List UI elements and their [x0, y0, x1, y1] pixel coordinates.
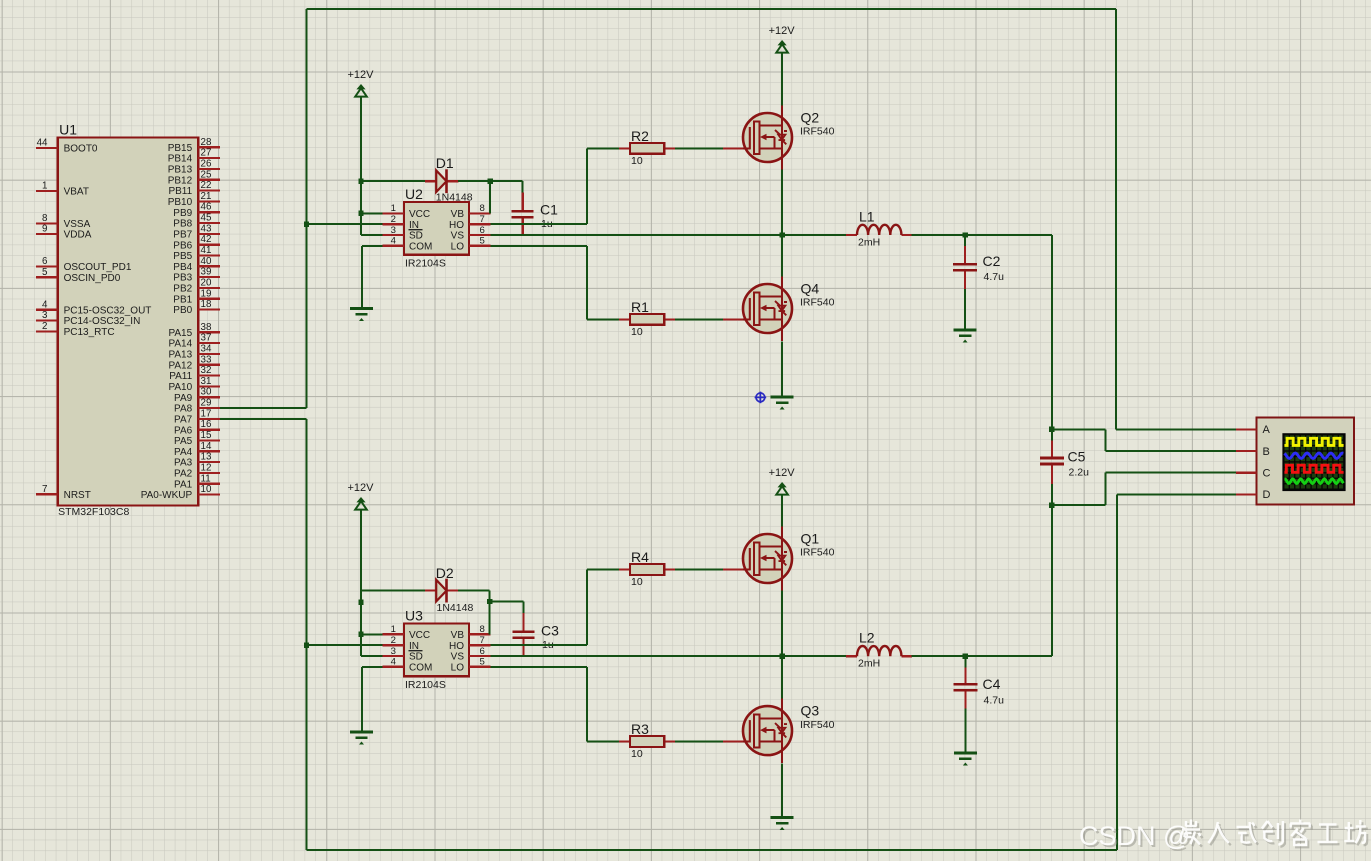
svg-text:4.7u: 4.7u [984, 695, 1005, 707]
capacitor C4 plates [953, 683, 977, 686]
wire B riser [1105, 429, 1107, 451]
U3 pin 1 VCC [382, 624, 430, 641]
junction C5 top node [1049, 427, 1054, 432]
capacitor C5 bottom lead [1051, 465, 1053, 484]
svg-text:IR2104S: IR2104S [405, 258, 446, 270]
svg-text:2: 2 [391, 635, 396, 646]
wire top border to scope A [307, 8, 1117, 10]
wire D1 anode wire [361, 180, 425, 182]
svg-text:6: 6 [42, 256, 48, 267]
power +12V symbol Q2 [769, 25, 796, 53]
wire R4 to Q1 gate [675, 569, 723, 571]
svg-text:VB: VB [451, 630, 465, 641]
svg-text:8: 8 [42, 213, 48, 224]
wire U2 IN branch [307, 223, 383, 225]
svg-text:2.2u: 2.2u [1069, 467, 1090, 479]
svg-text:VSSA: VSSA [64, 219, 91, 230]
svg-text:10: 10 [201, 484, 212, 495]
resistor R2 [630, 143, 664, 154]
svg-text:+12V: +12V [769, 25, 796, 37]
wire +12V U3 down [360, 510, 362, 657]
U1 pin 4 PC15-OSC32_OUT [36, 299, 152, 316]
svg-text:15: 15 [201, 430, 212, 441]
wire U3 VS phase run [491, 655, 782, 657]
svg-text:25: 25 [201, 169, 212, 180]
wire scope B row [1106, 450, 1237, 452]
capacitor C5 top lead [1051, 429, 1053, 441]
inductor L2 [857, 646, 901, 656]
U1 pin 40 PB4 [173, 256, 220, 273]
svg-text:5: 5 [42, 267, 48, 278]
svg-text:42: 42 [201, 234, 212, 245]
svg-text:PB2: PB2 [173, 284, 192, 295]
svg-text:30: 30 [201, 387, 212, 398]
svg-text:L2: L2 [859, 630, 875, 646]
U1 pin 1 VBAT [36, 180, 89, 197]
trace channel C red square wave [1284, 465, 1343, 472]
U1 pin 3 PC14-OSC32_IN [36, 310, 140, 327]
power +12V symbol Q1 [769, 467, 796, 495]
svg-text:IRF540: IRF540 [800, 297, 835, 309]
svg-text:PB15: PB15 [168, 143, 193, 154]
capacitor C3 bottom lead [522, 639, 524, 656]
ground (Q3 source) [771, 818, 794, 831]
svg-text:31: 31 [201, 376, 212, 387]
resistor R1 leads [619, 318, 630, 320]
svg-text:26: 26 [201, 158, 212, 169]
svg-text:+12V: +12V [769, 467, 796, 479]
power +12V symbol U2 [348, 69, 375, 97]
junction D1 anode node [358, 179, 363, 184]
wire C4 bottom to ground [964, 709, 966, 753]
oscilloscope pin C [1236, 468, 1270, 480]
svg-text:IRF540: IRF540 [800, 126, 835, 138]
capacitor C3 top lead [523, 602, 525, 614]
wire HO riser [586, 148, 588, 224]
svg-text:R4: R4 [631, 549, 649, 565]
svg-text:33: 33 [201, 354, 212, 365]
svg-text:7: 7 [480, 635, 485, 646]
wire +12V to Q2 drain [781, 53, 783, 106]
resistor R3 [630, 736, 664, 747]
U1 pin 19 PB1 [173, 288, 220, 305]
wire phase to L1 [782, 234, 847, 236]
U1 pin 33 PA12 [168, 354, 219, 371]
svg-text:1N4148: 1N4148 [436, 192, 473, 204]
svg-text:PB0: PB0 [173, 305, 192, 316]
junction phase node upper [779, 232, 784, 237]
svg-text:PB13: PB13 [168, 165, 193, 176]
wire U3 COM down [361, 667, 363, 732]
wire HO riser lower [586, 570, 588, 646]
wire Q3 source down [781, 764, 783, 817]
svg-text:Q1: Q1 [801, 531, 820, 547]
capacitor C4 bottom lead [964, 692, 966, 709]
svg-text:COM: COM [409, 241, 432, 252]
svg-text:VB: VB [451, 209, 465, 220]
diode D1 [436, 170, 446, 192]
svg-text:11: 11 [201, 473, 211, 484]
svg-text:B: B [1263, 446, 1270, 458]
wire +12V U2 down [360, 97, 362, 236]
capacitor C2 plates [953, 263, 977, 266]
wire D2 anode wire [361, 590, 425, 592]
power +12V symbol U3 [348, 482, 375, 510]
resistor R1 [630, 314, 664, 325]
wire C riser [1105, 473, 1107, 506]
gate driver U2 body [404, 202, 469, 255]
svg-text:PB6: PB6 [173, 240, 192, 251]
resistor R4 leads [619, 568, 630, 570]
svg-text:PC15-OSC32_OUT: PC15-OSC32_OUT [64, 305, 152, 316]
wire C5 column down [1051, 505, 1053, 656]
wire right vertical to scope D [1116, 494, 1118, 850]
svg-text:4: 4 [391, 236, 397, 247]
U1 pin 14 PA4 [174, 441, 220, 458]
svg-text:Q2: Q2 [801, 110, 820, 126]
svg-text:LO: LO [451, 662, 465, 673]
wire U3 COM [362, 666, 382, 668]
capacitor C1 bottom lead [522, 219, 524, 235]
wire phase to L2 [782, 655, 847, 657]
svg-text:PA10: PA10 [168, 382, 192, 393]
wire LO to R3 [587, 741, 619, 743]
U1 pin 17 PA7 [174, 408, 220, 425]
U2 pin 7 HO [449, 214, 491, 231]
svg-text:PA2: PA2 [174, 469, 193, 480]
wire C5 bottom branch [1052, 504, 1106, 506]
svg-text:9: 9 [42, 224, 47, 235]
U1 pin 22 PB11 [168, 180, 219, 197]
wire D1 cathode to VB [458, 180, 490, 182]
inductor L1 leads [846, 234, 857, 236]
svg-text:A: A [1263, 424, 1271, 436]
junction U3 VCC node [358, 632, 363, 637]
svg-text:Q3: Q3 [801, 703, 820, 719]
svg-text:R1: R1 [631, 299, 649, 315]
U1 pin 37 PA14 [168, 333, 219, 350]
trace channel A yellow square wave [1284, 438, 1343, 445]
svg-text:U2: U2 [405, 186, 423, 202]
svg-text:HO: HO [449, 641, 464, 652]
wire scope A row [1116, 428, 1236, 430]
ground (C2) [954, 330, 977, 343]
U1 pin 16 PA6 [174, 419, 220, 436]
svg-text:5: 5 [480, 657, 485, 668]
svg-text:L1: L1 [859, 209, 875, 225]
svg-text:IRF540: IRF540 [800, 547, 835, 559]
svg-text:PA1: PA1 [174, 479, 193, 490]
wire LO dropper [586, 246, 588, 320]
svg-text:2mH: 2mH [858, 658, 880, 670]
Q4 gate lead [723, 318, 745, 320]
svg-text:SD: SD [409, 231, 423, 242]
svg-text:45: 45 [201, 213, 212, 224]
svg-text:C1: C1 [540, 202, 558, 218]
wire U3 VCC [361, 633, 382, 635]
svg-text:R3: R3 [631, 721, 649, 737]
svg-text:PB14: PB14 [168, 154, 193, 165]
capacitor C1 top lead [522, 181, 524, 193]
svg-text:5: 5 [480, 236, 485, 247]
svg-text:+12V: +12V [348, 482, 375, 494]
wire scope C row [1106, 472, 1237, 474]
svg-text:1: 1 [42, 180, 47, 191]
inductor L1 [857, 225, 901, 235]
svg-text:10: 10 [631, 748, 643, 760]
svg-text:D: D [1263, 489, 1271, 501]
oscilloscope pin D [1236, 489, 1270, 501]
wire Q2 source to phase [781, 170, 783, 236]
svg-text:PC13_RTC: PC13_RTC [64, 327, 115, 338]
wire HO to R4 [587, 569, 619, 571]
svg-text:STM32F103C8: STM32F103C8 [58, 506, 129, 518]
svg-text:27: 27 [201, 148, 212, 159]
U2 pin 5 LO [451, 236, 491, 253]
oscilloscope screen [1282, 433, 1345, 491]
U1 pin 45 PB8 [173, 213, 220, 230]
svg-text:PB5: PB5 [173, 251, 192, 262]
diode D2 leads [425, 589, 436, 591]
svg-text:LO: LO [451, 241, 465, 252]
U1 pin 11 PA1 [174, 473, 220, 490]
wire R3 to Q3 gate [675, 741, 723, 743]
svg-text:R2: R2 [631, 128, 649, 144]
svg-text:29: 29 [201, 398, 212, 409]
U1 pin 38 PA15 [168, 322, 219, 339]
U2 pin 6 VS [451, 225, 491, 242]
svg-text:41: 41 [201, 245, 212, 256]
wire C5 bottom lead wire [1051, 484, 1053, 505]
svg-text:8: 8 [480, 624, 485, 635]
wire U3 SD tie [361, 655, 382, 657]
svg-text:37: 37 [201, 333, 212, 344]
wire VB drop lower [489, 591, 491, 635]
wire L1 node down [1051, 235, 1053, 429]
U1 pin 46 PB9 [173, 202, 220, 219]
svg-text:PB4: PB4 [173, 262, 192, 273]
svg-text:46: 46 [201, 202, 212, 213]
svg-text:28: 28 [201, 137, 212, 148]
svg-text:PB1: PB1 [173, 294, 192, 305]
svg-text:PA0-WKUP: PA0-WKUP [141, 490, 193, 501]
wire U3 HO run [491, 644, 587, 646]
svg-text:4: 4 [391, 657, 397, 668]
svg-text:IRF540: IRF540 [800, 719, 835, 731]
svg-text:OSCIN_PD0: OSCIN_PD0 [64, 273, 121, 284]
svg-text:PB8: PB8 [173, 219, 192, 230]
svg-text:32: 32 [201, 365, 212, 376]
svg-text:17: 17 [201, 408, 212, 419]
U1 pin 41 PB5 [173, 245, 220, 262]
U1 pin 26 PB13 [168, 158, 220, 175]
junction U2 VCC node [358, 211, 363, 216]
junction C2 node [962, 232, 967, 237]
junction VB node [488, 179, 493, 184]
inductor L2 leads [846, 655, 857, 657]
svg-text:D2: D2 [436, 565, 454, 581]
U3 pin 8 VB [451, 624, 491, 641]
trace channel B blue sine wave [1284, 453, 1343, 458]
svg-text:10: 10 [631, 155, 643, 167]
capacitor C2 top lead [964, 235, 966, 247]
svg-text:13: 13 [201, 452, 212, 463]
U2 pin 3 SD [382, 225, 423, 242]
svg-text:4.7u: 4.7u [984, 271, 1005, 283]
svg-text:PA5: PA5 [174, 436, 193, 447]
svg-text:Q4: Q4 [801, 281, 820, 297]
svg-text:1: 1 [391, 203, 396, 214]
svg-text:U3: U3 [405, 607, 423, 623]
svg-text:C2: C2 [983, 253, 1001, 269]
U1 pin 18 PB0 [173, 299, 220, 316]
svg-text:PB7: PB7 [173, 229, 192, 240]
svg-text:PA8: PA8 [174, 404, 193, 415]
capacitor C1 plates [512, 210, 534, 213]
U1 pin 12 PA2 [174, 462, 220, 479]
svg-text:3: 3 [391, 646, 396, 657]
wire U3 LO run [491, 666, 587, 668]
U2 pin 8 VB [451, 203, 491, 220]
svg-text:IR2104S: IR2104S [405, 679, 446, 691]
wire VB drop [489, 181, 491, 213]
svg-text:PA9: PA9 [174, 393, 193, 404]
wire PA8 bus up [306, 9, 308, 408]
U3 pin 4 COM [382, 657, 432, 674]
U1 pin 31 PA10 [168, 376, 219, 393]
U1 pin 20 PB2 [173, 277, 220, 294]
capacitor C4 top lead [964, 656, 966, 668]
U3 pin 6 VS [451, 646, 491, 663]
wire LO to R1 [587, 318, 619, 320]
svg-text:34: 34 [201, 343, 212, 354]
wire U3 IN branch [307, 644, 383, 646]
svg-text:PA3: PA3 [174, 458, 193, 469]
svg-text:3: 3 [391, 225, 396, 236]
svg-text:43: 43 [201, 223, 212, 234]
svg-text:PC14-OSC32_IN: PC14-OSC32_IN [64, 316, 141, 327]
transistor Q4 [743, 277, 792, 342]
U1 pin 43 PB7 [173, 223, 220, 240]
resistor R3 leads [619, 740, 630, 742]
U1 pin 32 PA11 [169, 365, 220, 382]
wire U2 COM down [361, 246, 363, 309]
U1 pin 39 PB3 [173, 267, 220, 284]
U2 pin 4 COM [382, 236, 432, 253]
svg-text:U1: U1 [59, 122, 77, 138]
wire L2 out [912, 655, 1052, 657]
svg-text:HO: HO [449, 220, 464, 231]
capacitor C5 plates [1040, 457, 1064, 460]
U3 pin 3 SD [382, 646, 423, 663]
U1 pin 29 PA8 [174, 398, 220, 415]
ground (C4) [954, 753, 977, 766]
svg-text:38: 38 [201, 322, 212, 333]
svg-text:PA7: PA7 [174, 414, 193, 425]
oscilloscope pin A [1236, 424, 1270, 436]
wire C5 top branch [1052, 428, 1106, 430]
svg-text:VCC: VCC [409, 209, 430, 220]
oscilloscope pin B [1236, 446, 1270, 458]
svg-text:VDDA: VDDA [64, 230, 92, 241]
MCU U1 body [58, 138, 199, 506]
U3 pin 2 IN [382, 635, 419, 652]
svg-text:2: 2 [391, 214, 396, 225]
svg-text:NRST: NRST [64, 490, 91, 501]
svg-text:10: 10 [631, 576, 643, 588]
svg-text:C5: C5 [1068, 449, 1086, 465]
oscilloscope body [1257, 418, 1354, 505]
U1 pin 21 PB10 [168, 191, 220, 208]
wire R1 to Q4 gate [675, 318, 723, 320]
wire PA7 bus down [306, 419, 308, 850]
junction U3 aux node [358, 600, 363, 605]
wire Q1 source to phase [781, 591, 783, 657]
wire PA7 to left bus [220, 418, 307, 420]
junction PA7 bus / U3 IN [304, 643, 309, 648]
wire U2 VS phase run [491, 234, 782, 236]
watermark CSDN [1081, 822, 1368, 854]
svg-text:12: 12 [201, 462, 212, 473]
svg-text:40: 40 [201, 256, 212, 267]
wire C2 bottom to ground [964, 289, 966, 329]
U1 pin 15 PA5 [174, 430, 220, 447]
wire U2 COM [362, 245, 382, 247]
svg-text:CSDN @: CSDN @ [1079, 821, 1190, 851]
svg-text:19: 19 [201, 288, 212, 299]
U1 pin 42 PB6 [173, 234, 220, 251]
svg-text:C3: C3 [541, 623, 559, 639]
svg-text:4: 4 [42, 299, 48, 310]
junction C5 bottom node [1049, 503, 1054, 508]
svg-text:7: 7 [42, 484, 47, 495]
ground (U2 COM) [350, 309, 373, 322]
svg-text:C: C [1263, 468, 1271, 480]
U1 pin 28 PB15 [168, 137, 220, 154]
svg-text:VS: VS [451, 652, 465, 663]
svg-text:VS: VS [451, 231, 465, 242]
wire LO dropper lower [586, 667, 588, 742]
ground (Q4 source) [771, 397, 794, 410]
svg-text:6: 6 [480, 225, 485, 236]
wire R2 to Q2 gate [675, 147, 723, 149]
wire HO to R2 [587, 147, 619, 149]
wire L1 out [912, 234, 1052, 236]
U1 pin 7 NRST [36, 484, 91, 501]
svg-text:PB11: PB11 [168, 186, 192, 197]
U1 pin 30 PA9 [174, 387, 220, 404]
svg-text:PA14: PA14 [168, 339, 192, 350]
svg-text:BOOT0: BOOT0 [64, 144, 98, 155]
Q3 gate lead [723, 740, 745, 742]
U1 pin 25 PB12 [168, 169, 220, 186]
U1 pin 27 PB14 [168, 148, 220, 165]
svg-text:PB12: PB12 [168, 175, 193, 186]
svg-text:22: 22 [201, 180, 212, 191]
junction PA8 bus / U2 IN [304, 222, 309, 227]
transistor Q1 [743, 527, 792, 592]
diode D1 leads [425, 180, 436, 182]
svg-text:VCC: VCC [409, 630, 430, 641]
junction C3 branch node [487, 599, 492, 604]
wire bottom border to scope D [307, 849, 1117, 851]
junction phase node lower [779, 654, 784, 659]
U2 pin 1 VCC [382, 203, 430, 220]
ground (U3 COM) [350, 732, 373, 745]
diode D2 [436, 580, 446, 602]
svg-text:PA6: PA6 [174, 425, 193, 436]
svg-text:14: 14 [201, 441, 212, 452]
